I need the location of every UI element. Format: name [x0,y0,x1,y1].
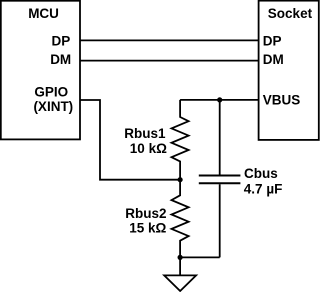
svg-text:DM: DM [50,52,71,67]
svg-text:Rbus2: Rbus2 [125,206,166,221]
svg-text:DP: DP [263,33,282,48]
svg-text:10 kΩ: 10 kΩ [130,141,167,156]
svg-text:Socket: Socket [268,6,313,21]
svg-text:(XINT): (XINT) [33,99,73,114]
svg-text:DP: DP [52,33,71,48]
svg-text:GPIO: GPIO [34,84,68,99]
svg-text:15 kΩ: 15 kΩ [129,220,166,235]
svg-text:Cbus: Cbus [244,166,278,181]
svg-text:Rbus1: Rbus1 [124,126,166,141]
svg-text:DM: DM [263,52,284,67]
svg-text:MCU: MCU [28,6,59,21]
svg-text:4.7 µF: 4.7 µF [244,181,283,196]
svg-text:VBUS: VBUS [263,93,301,108]
